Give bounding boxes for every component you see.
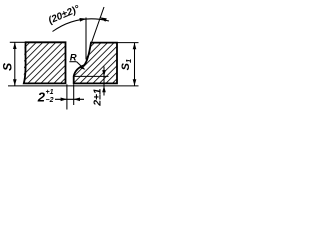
arrowhead S bottom xyxy=(13,79,17,86)
arrowhead root gap left xyxy=(61,98,68,102)
svg-text:−2: −2 xyxy=(46,97,54,104)
svg-text:+1: +1 xyxy=(46,89,54,96)
dimension line S1 xyxy=(134,43,136,86)
arrowhead S1 top xyxy=(133,43,137,50)
arrowhead angle left xyxy=(79,18,86,22)
dimension line root gap xyxy=(55,98,84,100)
arrowhead angle right xyxy=(99,17,106,22)
extension line, top of S1 dimension xyxy=(117,42,139,44)
R leader line xyxy=(77,62,85,69)
dimension line S xyxy=(14,42,16,86)
angle dimension arc xyxy=(53,19,110,32)
vertical helper line for bevel angle xyxy=(85,18,87,60)
svg-text:S: S xyxy=(1,63,15,71)
extension line, right side of root gap xyxy=(73,84,75,105)
arrowhead root gap right xyxy=(74,98,81,102)
R leader arrowhead xyxy=(79,65,85,70)
arrowhead S top xyxy=(13,43,17,50)
extension line, top of S dimension xyxy=(10,41,25,43)
arrowhead root face top xyxy=(102,70,106,77)
svg-text:2: 2 xyxy=(37,90,46,105)
right plate outline (bevel, root radius, root face) xyxy=(74,43,117,84)
arrowhead root face bottom xyxy=(102,86,106,93)
arrowhead S1 bottom xyxy=(133,79,137,86)
bevel edge extension line xyxy=(91,7,104,44)
R label shelf line xyxy=(69,61,76,63)
bottom extension line (common base) xyxy=(8,85,139,87)
right plate section hatching xyxy=(70,38,122,90)
left plate section hatching xyxy=(20,38,72,90)
extension line, left side of root gap xyxy=(66,84,68,109)
svg-text:2±1: 2±1 xyxy=(92,88,104,107)
extension line, top of root face xyxy=(74,75,109,77)
left plate outline (square groove edge) xyxy=(24,42,66,83)
dimension line root face height xyxy=(103,67,105,96)
